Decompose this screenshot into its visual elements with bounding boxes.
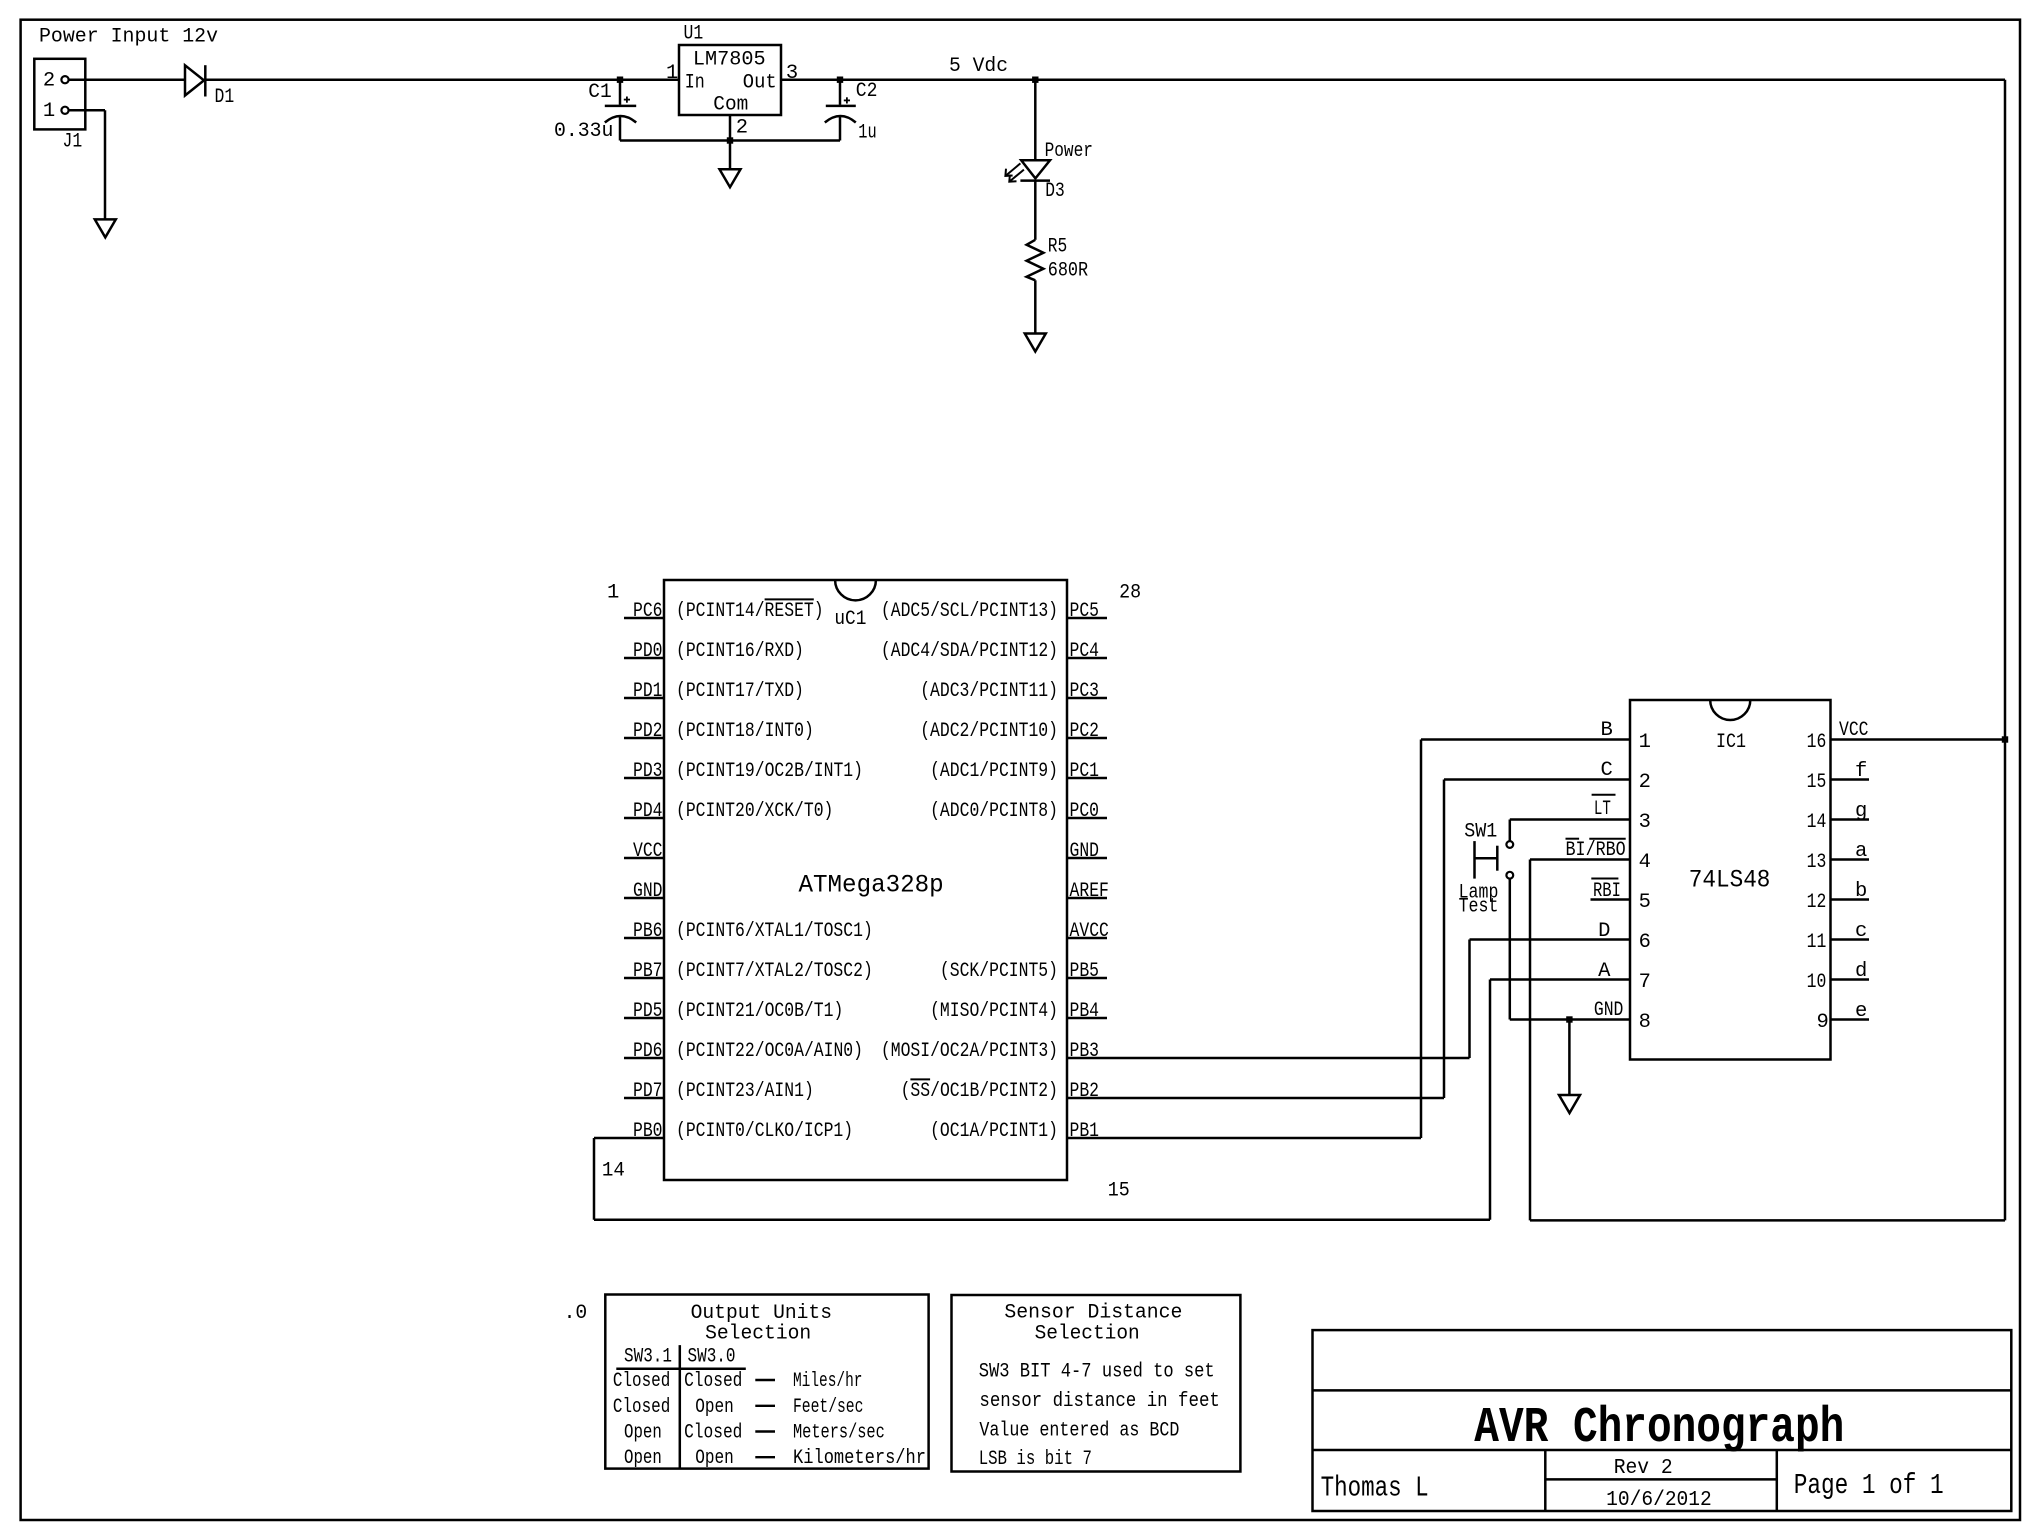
svg-text:1: 1 [43,100,55,123]
svg-text:(PCINT6/XTAL1/TOSC1): (PCINT6/XTAL1/TOSC1) [676,920,873,943]
uC1 right pin 19 PB5 [1067,977,1107,980]
svg-text:SW3 BIT 4-7 used to set: SW3 BIT 4-7 used to set [979,1361,1215,1384]
svg-text:74LS48: 74LS48 [1689,866,1771,895]
wire U1 Com pin 2 [729,115,732,169]
svg-text:PB4: PB4 [1070,1000,1100,1023]
svg-text:PC3: PC3 [1070,680,1100,703]
svg-text:PC6: PC6 [633,600,663,623]
svg-text:PD2: PD2 [633,720,663,743]
svg-text:Rev 2: Rev 2 [1614,1456,1673,1480]
svg-text:SW3.0: SW3.0 [688,1346,736,1369]
svg-text:1: 1 [666,62,678,85]
uC1 left pin 4 PD2 [624,737,664,740]
node Com junction [727,137,733,143]
uC1 left pin 8 GND [624,897,664,900]
uC1 right pin 20 AVCC [1067,937,1107,940]
svg-text:AVCC: AVCC [1070,920,1109,943]
svg-text:In: In [685,71,705,94]
svg-text:PD1: PD1 [633,680,663,703]
svg-text:(PCINT7/XTAL2/TOSC2): (PCINT7/XTAL2/TOSC2) [676,960,873,983]
svg-text:D3: D3 [1045,180,1065,203]
svg-text:16: 16 [1807,731,1827,754]
svg-text:PD3: PD3 [633,760,663,783]
svg-text:Closed: Closed [613,1370,670,1393]
diode D1 [185,65,204,95]
svg-text:PB1: PB1 [1070,1120,1100,1143]
title block frame [1313,1330,2012,1511]
svg-text:(ADC3/PCINT11): (ADC3/PCINT11) [920,680,1058,703]
svg-text:C1: C1 [588,81,611,104]
svg-text:(ADC4/SDA/PCINT12): (ADC4/SDA/PCINT12) [881,640,1058,663]
svg-text:7: 7 [1639,971,1651,994]
wire R5 to ground [1034,280,1037,333]
svg-text:(MOSI/OC2A/PCINT3): (MOSI/OC2A/PCINT3) [881,1040,1058,1063]
uC1 right pin 18 PB4 [1067,1017,1107,1020]
svg-text:PD4: PD4 [633,800,663,823]
IC1 pin 14 stub (g) [1831,818,1870,821]
node VCC junction [2002,736,2008,742]
svg-text:Closed: Closed [684,1370,742,1393]
svg-text:C2: C2 [856,80,878,103]
svg-text:Closed: Closed [684,1422,742,1445]
svg-text:1u: 1u [858,122,876,145]
wire 5V right rail [2004,80,2007,1221]
connector J1 [34,59,85,130]
IC IC1 74LS48 body [1630,700,1831,1060]
svg-text:14: 14 [602,1160,625,1183]
svg-text:VCC: VCC [633,840,663,863]
svg-text:(ADC1/PCINT9): (ADC1/PCINT9) [930,760,1058,783]
svg-text:4: 4 [1639,851,1651,874]
uC1 right pin 21 AREF [1067,897,1107,900]
svg-text:(ADC2/PCINT10): (ADC2/PCINT10) [920,720,1058,743]
IC1 pin 8 stub (GND) [1510,1018,1630,1021]
svg-text:LSB is bit 7: LSB is bit 7 [979,1448,1092,1471]
uC1 right pin 26 PC3 [1067,697,1107,700]
svg-text:1: 1 [1639,731,1651,754]
svg-text:Out: Out [743,71,777,94]
svg-text:Selection: Selection [705,1323,811,1346]
svg-text:10: 10 [1807,971,1827,994]
wire 5V to D3 [1034,80,1037,161]
svg-text:Kilometers/hr: Kilometers/hr [793,1447,926,1470]
svg-text:RBI: RBI [1593,880,1621,903]
svg-text:D1: D1 [215,86,235,109]
svg-text:Open: Open [624,1422,662,1445]
wire 5 Vdc rail [781,78,2005,81]
wire D3 to R5 [1034,181,1037,240]
table Output Units Selection [605,1295,928,1469]
uC1 right pin 24 PC1 [1067,777,1107,780]
svg-text:PD5: PD5 [633,1000,663,1023]
svg-text:Closed: Closed [613,1396,670,1419]
svg-text:12: 12 [1807,891,1827,914]
svg-text:PC5: PC5 [1070,600,1100,623]
svg-text:SW1: SW1 [1464,821,1497,844]
uC1 left pin 11 PD5 [624,1017,664,1020]
table divider vertical [679,1345,682,1468]
svg-text:Feet/sec: Feet/sec [793,1396,863,1419]
svg-text:PD0: PD0 [633,640,663,663]
svg-text:A: A [1598,960,1611,983]
svg-text:9: 9 [1817,1011,1829,1034]
IC1 pin 10 stub (d) [1831,978,1870,981]
table header underline [616,1368,746,1371]
wire J1 pin2 to D1 [69,78,185,81]
svg-text:(PCINT16/RXD): (PCINT16/RXD) [676,640,804,663]
IC1 pin 13 stub (a) [1831,858,1870,861]
node C2/output junction [837,77,843,83]
svg-text:(PCINT14/RESET): (PCINT14/RESET) [676,600,824,623]
svg-text:Power Input 12v: Power Input 12v [39,26,218,49]
svg-text:PD7: PD7 [633,1080,663,1103]
svg-text:(PCINT19/OC2B/INT1): (PCINT19/OC2B/INT1) [676,760,863,783]
uC1 left pin 3 PD1 [624,697,664,700]
svg-text:5 Vdc: 5 Vdc [949,55,1008,78]
capacitor C1 0.33u [619,80,622,105]
svg-text:3: 3 [786,62,798,85]
svg-text:(ADC0/PCINT8): (ADC0/PCINT8) [930,800,1058,823]
svg-text:PB7: PB7 [633,960,663,983]
IC1 pin 9 stub (e) [1831,1018,1870,1021]
wire PB1 to B (net 15) [1420,740,1423,1139]
IC1 pin 11 stub (c) [1831,938,1870,941]
svg-text:Com: Com [713,94,748,117]
svg-text:11: 11 [1807,931,1827,954]
LED D3 [1021,160,1050,178]
svg-text:GND: GND [1070,840,1100,863]
svg-text:IC1: IC1 [1716,731,1746,754]
IC uC1 ATMega328p body [664,580,1067,1180]
svg-text:(MISO/PCINT4): (MISO/PCINT4) [930,1000,1058,1023]
uC1 left pin 13 PD7 [624,1097,664,1100]
svg-text:(PCINT18/INT0): (PCINT18/INT0) [676,720,814,743]
svg-text:3: 3 [1639,811,1651,834]
uC1 left pin 14 PB0 [594,1137,664,1140]
ground [1025,334,1046,352]
svg-text:6: 6 [1639,931,1651,954]
svg-text:AVR Chronograph: AVR Chronograph [1474,1400,1844,1457]
svg-text:5: 5 [1639,891,1651,914]
svg-text:15: 15 [1108,1179,1130,1202]
IC1 pin 5 stub (RBI) [1591,898,1631,901]
svg-text:13: 13 [1807,851,1827,874]
svg-text:(PCINT22/OC0A/AIN0): (PCINT22/OC0A/AIN0) [676,1040,863,1063]
wire J1 pin1 to ground [69,109,105,112]
uC1 right pin 28 PC5 [1067,617,1107,620]
IC1 pin 15 stub (f) [1831,778,1870,781]
uC1 right pin 23 PC0 [1067,817,1107,820]
uC1 left pin 10 PB7 [624,977,664,980]
ground [1559,1095,1580,1113]
resistor R5 680R [1027,240,1044,280]
svg-text:(PCINT17/TXD): (PCINT17/TXD) [676,680,804,703]
svg-text:Test: Test [1459,895,1499,918]
svg-text:(PCINT0/CLKO/ICP1): (PCINT0/CLKO/ICP1) [676,1120,853,1143]
wire LT to SW1 [1509,820,1512,842]
svg-text:10/6/2012: 10/6/2012 [1606,1488,1712,1512]
wire PB0 to A (net 14) [593,1138,596,1220]
IC1 pin 16 stub (VCC) [1831,738,2006,741]
svg-text:LM7805: LM7805 [693,49,766,72]
uC1 left pin 7 VCC [624,857,664,860]
svg-text:R5: R5 [1048,236,1068,259]
node 5V/LED junction [1032,77,1038,83]
svg-text:e: e [1855,1000,1867,1023]
svg-text:8: 8 [1639,1011,1651,1034]
svg-text:1: 1 [607,582,619,605]
svg-text:PB6: PB6 [633,920,663,943]
wire GND to ground [1568,1020,1571,1096]
svg-text:sensor distance in feet: sensor distance in feet [979,1390,1220,1413]
wire capacitor ground rail [620,139,840,142]
svg-text:(ADC5/SCL/PCINT13): (ADC5/SCL/PCINT13) [881,600,1058,623]
ground [95,219,116,237]
svg-text:Page 1 of 1: Page 1 of 1 [1794,1469,1944,1502]
uC1 left pin 12 PD6 [624,1057,664,1060]
svg-text:2: 2 [1639,771,1651,794]
svg-text:(SCK/PCINT5): (SCK/PCINT5) [940,960,1058,983]
IC1 pin 1 stub (B) [1421,738,1630,741]
IC1 pin 4 stub (BI/RBO) [1530,858,1630,861]
svg-text:2: 2 [43,69,55,92]
svg-text:Value entered as BCD: Value entered as BCD [979,1420,1179,1443]
wire PB2 to C [1443,780,1446,1099]
svg-text:PD6: PD6 [633,1040,663,1063]
svg-text:PC2: PC2 [1070,720,1100,743]
svg-text:(OC1A/PCINT1): (OC1A/PCINT1) [930,1120,1058,1143]
wire PB3 to D [1468,940,1471,1059]
svg-text:D: D [1598,920,1610,943]
uC1 left pin 5 PD3 [624,777,664,780]
svg-text:C: C [1601,759,1613,782]
svg-text:Meters/sec: Meters/sec [793,1422,885,1445]
svg-text:PB3: PB3 [1070,1040,1100,1063]
uC1 left pin 1 PC6 [624,617,664,620]
uC1 right pin 17 PB3 [1067,1057,1470,1060]
wire D1 to U1 pin1 [206,78,680,81]
svg-text:Miles/hr: Miles/hr [793,1370,863,1393]
node C1/input junction [617,77,623,83]
svg-text:b: b [1855,880,1867,903]
svg-text:(SS/OC1B/PCINT2): (SS/OC1B/PCINT2) [901,1080,1058,1103]
svg-text:Open: Open [624,1447,662,1470]
svg-text:14: 14 [1807,811,1827,834]
svg-text:B: B [1601,719,1613,742]
svg-text:(PCINT23/AIN1): (PCINT23/AIN1) [676,1080,814,1103]
svg-text:LT: LT [1594,798,1611,821]
IC1 pin 2 stub (C) [1444,778,1630,781]
svg-text:U1: U1 [684,23,704,46]
uC1 left pin 6 PD4 [624,817,664,820]
IC1 pin 6 stub (D) [1470,938,1631,941]
svg-text:BI/RBO: BI/RBO [1566,839,1626,862]
svg-text:GND: GND [1594,999,1624,1022]
svg-text:Thomas L: Thomas L [1321,1472,1429,1505]
svg-text:J1: J1 [63,131,83,154]
uC1 right pin 15 PB1 [1067,1137,1421,1140]
IC1 pin 7 stub (A) [1490,978,1630,981]
svg-text:ATMega328p: ATMega328p [799,871,944,900]
svg-text:15: 15 [1807,771,1827,794]
uC1 right pin 16 PB2 [1067,1097,1444,1100]
note Sensor Distance Selection [952,1295,1241,1472]
svg-text:2: 2 [736,117,748,140]
IC1 pin 3 stub (LT) [1510,818,1630,821]
uC1 right pin 22 GND [1067,857,1107,860]
svg-text:Power: Power [1045,140,1093,163]
uC1 right pin 27 PC4 [1067,657,1107,660]
node GND junction [1566,1016,1572,1022]
capacitor C2 1u [839,80,842,105]
svg-text:GND: GND [633,880,663,903]
svg-text:Open: Open [695,1396,734,1419]
uC1 right pin 25 PC2 [1067,737,1107,740]
svg-text:AREF: AREF [1070,880,1109,903]
svg-text:Sensor Distance: Sensor Distance [1004,1301,1182,1324]
svg-text:SW3.1: SW3.1 [624,1346,672,1369]
svg-text:PC4: PC4 [1070,640,1100,663]
wire SW1 to GND net [1509,879,1512,1020]
svg-text:c: c [1855,920,1867,943]
svg-text:(PCINT21/OC0B/T1): (PCINT21/OC0B/T1) [676,1000,843,1023]
svg-text:a: a [1855,840,1867,863]
svg-text:0.33u: 0.33u [554,120,613,143]
svg-text:PB5: PB5 [1070,960,1100,983]
svg-text:Open: Open [695,1447,734,1470]
svg-text:d: d [1855,960,1867,983]
IC1 pin 12 stub (b) [1831,898,1870,901]
svg-text:g: g [1855,800,1867,823]
uC1 left pin 2 PD0 [624,657,664,660]
svg-text:680R: 680R [1048,260,1089,283]
ground [720,169,741,187]
svg-text:.0: .0 [564,1302,588,1325]
svg-text:PB0: PB0 [633,1120,663,1143]
svg-text:uC1: uC1 [834,608,866,631]
svg-text:Selection: Selection [1035,1323,1140,1346]
uC1 left pin 9 PB6 [624,937,664,940]
svg-text:PC1: PC1 [1070,760,1100,783]
svg-text:PC0: PC0 [1070,800,1100,823]
svg-text:VCC: VCC [1839,719,1869,742]
svg-text:28: 28 [1119,582,1141,605]
svg-text:(PCINT20/XCK/T0): (PCINT20/XCK/T0) [676,800,833,823]
svg-text:f: f [1855,760,1867,783]
svg-text:PB2: PB2 [1070,1080,1100,1103]
